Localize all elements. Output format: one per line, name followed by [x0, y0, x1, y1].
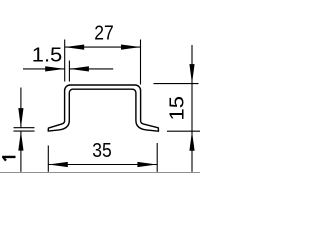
extension line top of dim 15 — [154, 83, 199, 85]
dimension leader right of dim 1.5 — [69, 68, 113, 70]
dimension line above dim 1 — [20, 88, 22, 128]
svg-text:15: 15 — [166, 96, 189, 121]
arrowhead lower of dim 1 — [18, 131, 23, 151]
arrowhead right of dim 35 — [137, 162, 157, 167]
svg-text:27: 27 — [94, 21, 114, 44]
hat-profile rail cross-section (35x15 top-hat rail) — [48, 85, 158, 131]
arrowhead top of dim 15 — [189, 64, 194, 84]
extension line lower of dim 1 — [14, 130, 35, 132]
arrowhead left of dim 35 — [48, 162, 68, 167]
extension line right of dim 27 — [140, 40, 142, 85]
baseline separator rule — [0, 172, 200, 174]
extension line left of dim 35 — [47, 146, 49, 172]
svg-text:35: 35 — [92, 139, 112, 162]
value label 1 (rotated digit drawn as path) — [2, 156, 15, 162]
extension line upper of dim 1 — [14, 127, 35, 129]
extension line bottom of dim 15 — [167, 130, 200, 132]
dimension line 35 — [48, 164, 157, 166]
arrowhead left of dim 27 — [65, 45, 85, 50]
arrowhead left of dim 1.5 — [45, 66, 64, 71]
extension line left of dim 27 (also left extension of dim 1.5) — [64, 40, 66, 82]
svg-text:1.5: 1.5 — [32, 44, 63, 67]
extension line right of dim 35 — [156, 143, 158, 172]
dimension line 27 — [65, 46, 141, 48]
extension line right of dim 1.5 — [68, 61, 70, 82]
dimension line below dim 1 — [20, 131, 22, 172]
arrowhead right of dim 27 — [121, 45, 141, 50]
arrowhead right of dim 1.5 — [69, 66, 89, 71]
arrowhead bottom of dim 15 — [189, 131, 194, 151]
dimension leader left of dim 1.5 — [23, 68, 65, 70]
arrowhead upper of dim 1 — [18, 108, 23, 128]
dimension line 15 — [191, 45, 193, 172]
